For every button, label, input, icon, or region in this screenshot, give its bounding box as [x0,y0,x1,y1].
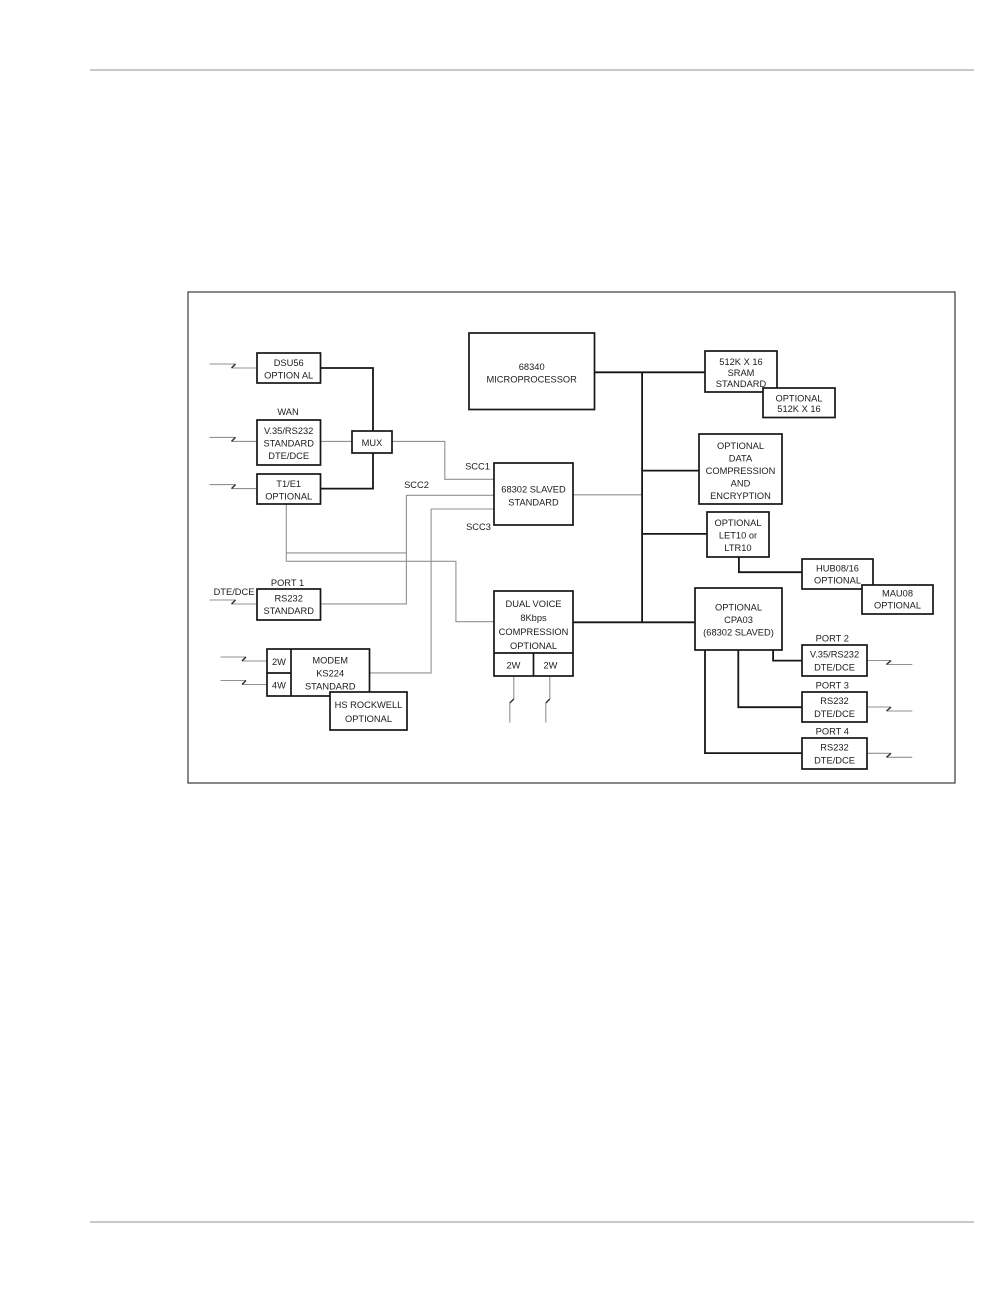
wire 68302 to bus [573,494,642,496]
break slash 2W voice right [546,699,550,703]
svg-text:STANDARD: STANDARD [508,497,559,507]
block V.35/RS232 WAN [257,420,321,465]
block 68302 slaved [494,463,573,525]
break slash PORT3 output [887,707,892,711]
break slash PORT4 output [887,753,892,757]
break slash 2W input [242,657,246,661]
wire CPA03 to PORT3 [738,650,802,707]
svg-text:MICROPROCESSOR: MICROPROCESSOR [486,374,577,384]
svg-text:OPTIONAL: OPTIONAL [345,714,392,724]
wire PORT4 output tail [887,756,913,758]
block PORT3 RS232 [802,692,867,722]
block MUX [352,431,392,453]
svg-text:T1/E1: T1/E1 [276,479,301,489]
wire SCC2 68302 to PORT1 [321,495,495,604]
svg-text:LTR10: LTR10 [724,543,751,553]
svg-text:4W: 4W [272,680,286,690]
svg-text:DTE/DCE: DTE/DCE [814,709,855,719]
wire PORT4 output stub [867,752,891,754]
divider MODEM 2W/4W row [267,672,291,674]
wire PORT1 input stub [210,599,236,601]
svg-text:SCC1: SCC1 [465,462,490,472]
wire 68340 to SRAM [595,371,706,373]
wire V.35 box to MUX [321,440,353,442]
block CPA03 [695,588,782,650]
wire 4W input [242,684,267,686]
wire T1/E1 down [285,504,287,561]
break slash WAN input [232,437,236,441]
block data compression [699,434,782,504]
svg-text:2W: 2W [507,661,521,671]
block MODEM KS224 [267,649,370,696]
svg-text:DSU56: DSU56 [274,358,304,368]
page top rule [90,69,974,71]
svg-text:PORT 1: PORT 1 [271,578,304,588]
svg-text:RS232: RS232 [274,593,302,603]
divider MODEM 2W/4W column [290,649,292,696]
block PORT4 RS232 [802,738,867,769]
svg-text:512K X 16: 512K X 16 [777,404,820,414]
svg-text:HUB08/16: HUB08/16 [816,563,859,573]
block PORT2 V.35 [802,645,867,676]
svg-text:COMPRESSION: COMPRESSION [499,627,569,637]
wire PORT1 input [232,603,258,605]
block 68340 microprocessor [469,333,595,410]
svg-text:HS ROCKWELL: HS ROCKWELL [335,700,403,710]
svg-text:PORT 2: PORT 2 [816,633,849,643]
svg-text:COMPRESSION: COMPRESSION [706,466,776,476]
svg-text:MODEM: MODEM [312,655,348,665]
wire T1/E1 to DUAL VOICE [286,561,494,621]
svg-text:MAU08: MAU08 [882,588,913,598]
svg-text:DUAL VOICE: DUAL VOICE [506,599,562,609]
svg-text:SCC2: SCC2 [404,480,429,490]
svg-text:2W: 2W [272,657,286,667]
svg-text:V.35/RS232: V.35/RS232 [810,649,859,659]
block LET10 [707,512,769,557]
svg-text:OPTIONAL: OPTIONAL [714,518,761,528]
wire 2W input [242,660,267,662]
block SRAM standard [705,351,777,392]
wire DSU56 input [232,367,258,369]
wire T1/E1 branch to SCC2 [286,552,406,554]
svg-text:ENCRYPTION: ENCRYPTION [710,491,771,501]
svg-text:SRAM: SRAM [728,368,755,378]
svg-text:STANDARD: STANDARD [716,379,767,389]
page bottom rule [90,1221,974,1223]
svg-text:STANDARD: STANDARD [305,681,356,691]
wire SCC1 MUX to 68302 [392,441,494,479]
svg-text:(68302 SLAVED): (68302 SLAVED) [703,627,774,637]
wire CPA03 to PORT4 [705,650,802,753]
wire CPA03 to PORT2 [773,650,802,661]
svg-text:68340: 68340 [519,362,545,372]
svg-text:CPA03: CPA03 [724,615,753,625]
wire 2W voice output left [513,676,515,699]
wire bus to LET10 [642,533,707,535]
svg-text:OPTIONAL: OPTIONAL [715,602,762,612]
wire WAN input [232,440,258,442]
svg-text:STANDARD: STANDARD [263,438,314,448]
svg-text:PORT 3: PORT 3 [816,681,849,691]
svg-text:LET10 or: LET10 or [719,530,757,540]
svg-text:OPTIONAL: OPTIONAL [717,441,764,451]
svg-text:WAN: WAN [277,407,298,417]
bus vertical [641,372,643,622]
wire 2W input stub [221,656,247,658]
wire DUAL VOICE to CPA03 [573,621,695,623]
break slash PORT2 output [887,661,892,665]
svg-text:V.35/RS232: V.35/RS232 [264,426,313,436]
svg-text:DTE/DCE: DTE/DCE [268,451,309,461]
wire 2W voice output right [549,676,551,699]
break slash 2W voice left [510,699,514,703]
block HUB08 [802,559,873,589]
svg-text:AND: AND [731,478,751,488]
wire PORT2 output tail [887,664,913,666]
wire WAN input stub [210,436,236,438]
block HS ROCKWELL [330,692,407,730]
svg-text:68302 SLAVED: 68302 SLAVED [501,484,566,494]
svg-text:PORT 4: PORT 4 [816,727,849,737]
block DUAL VOICE [494,591,573,676]
svg-text:2W: 2W [544,661,558,671]
block optional 512K [763,388,835,418]
block PORT1 RS232 [257,589,321,620]
block DSU56 [257,353,321,383]
svg-text:OPTIONAL: OPTIONAL [874,600,921,610]
wire PORT2 output stub [867,660,891,662]
wire PORT3 output tail [887,710,913,712]
svg-text:STANDARD: STANDARD [263,606,314,616]
svg-text:KS224: KS224 [316,668,344,678]
svg-text:MUX: MUX [362,438,383,448]
svg-text:OPTIONAL: OPTIONAL [814,575,861,585]
wire PORT3 output stub [867,706,891,708]
block MAU08 [862,585,933,614]
break slash 4W input [242,681,246,685]
wire DSU56 to MUX vertical [321,368,374,489]
divider DUAL VOICE 2W column [533,653,535,676]
svg-text:OPTIONAL: OPTIONAL [775,393,822,403]
svg-text:512K X 16: 512K X 16 [719,357,762,367]
svg-text:DTE/DCE: DTE/DCE [814,755,855,765]
svg-text:SCC3: SCC3 [466,522,491,532]
divider DUAL VOICE 2W row [494,652,573,654]
wire DSU56 input stub [210,363,236,365]
svg-text:DTE/DCE: DTE/DCE [814,662,855,672]
wire bus to data compression [642,470,699,472]
break slash DSU56 input [232,364,236,368]
wire T1/E1 input [232,488,258,490]
svg-text:OPTION AL: OPTION AL [264,370,313,380]
svg-text:RS232: RS232 [820,742,848,752]
wire LET10 to HUB08 [739,557,802,572]
wire 4W input stub [221,680,247,682]
svg-text:8Kbps: 8Kbps [520,613,547,623]
wire 2W voice output left tail [509,703,511,723]
break slash PORT1 input [232,600,236,604]
block T1/E1 [257,474,321,504]
wire T1/E1 input stub [210,484,236,486]
diagram frame [188,292,955,783]
svg-text:RS232: RS232 [820,696,848,706]
svg-text:DATA: DATA [729,453,753,463]
svg-text:OPTIONAL: OPTIONAL [265,491,312,501]
svg-text:OPTIONAL: OPTIONAL [510,641,557,651]
wire SCC3 68302 to MODEM [370,509,495,673]
wire 2W voice output right tail [545,703,547,723]
svg-text:DTE/DCE: DTE/DCE [214,587,255,597]
break slash T1/E1 input [232,485,236,489]
